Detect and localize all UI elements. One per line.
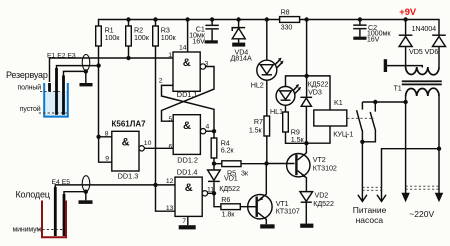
diode VD2 КД522	[300, 191, 334, 224]
svg-text:K1: K1	[334, 98, 343, 107]
ground: C1	[205, 40, 218, 43]
resistor R7 1.5к	[249, 116, 270, 164]
svg-text:+9V: +9V	[399, 7, 417, 17]
svg-text:~220V: ~220V	[409, 209, 434, 219]
label пустой + level line	[20, 105, 67, 113]
ground: VD2	[300, 224, 313, 228]
svg-text:&: &	[183, 120, 191, 132]
svg-text:VD1: VD1	[224, 173, 238, 182]
svg-text:6.2к: 6.2к	[221, 146, 235, 155]
svg-text:КД522: КД522	[219, 184, 240, 193]
svg-text:Колодец: Колодец	[16, 190, 50, 200]
wire: contact top rail to primary left leg	[362, 101, 405, 103]
capacitor C2	[353, 20, 391, 44]
well outline (dark red)	[42, 201, 66, 238]
svg-text:Резервуар: Резервуар	[6, 70, 48, 80]
wire: top supply rail	[99, 17, 440, 35]
electrode E2 + wire to DD1.3 inputs	[57, 63, 101, 114]
svg-text:HL2: HL2	[251, 81, 264, 90]
wire: primary right leg down	[437, 96, 441, 194]
gate DD1.3	[105, 130, 152, 180]
wire: DD1.4 output to junction	[208, 192, 214, 194]
svg-text:КД522: КД522	[313, 199, 334, 208]
svg-text:&: &	[122, 136, 130, 148]
svg-text:&: &	[185, 182, 193, 194]
svg-text:7: 7	[182, 218, 186, 225]
ground: tank cable shield	[80, 83, 93, 86]
svg-text:полный: полный	[18, 84, 42, 92]
wire: latch cross-coupling DD1.1 out3 to DD1.2 in5	[162, 67, 215, 122]
resistor R4 6.2к	[211, 131, 234, 163]
svg-text:100к: 100к	[134, 33, 150, 42]
svg-text:1N4004: 1N4004	[412, 24, 437, 33]
ground: C2	[353, 37, 366, 40]
cable dashes bottom left pair	[362, 187, 381, 190]
svg-text:VD5 VD6: VD5 VD6	[409, 47, 438, 56]
label Питание насоса	[353, 205, 387, 225]
wire: DD1.4 pin 7 to ground	[187, 216, 189, 225]
gate DD1.1	[159, 44, 209, 99]
diode VD5 1N4004	[399, 20, 413, 68]
svg-text:R8: R8	[281, 8, 290, 17]
wire: DD1.2 output to R4 junction	[206, 129, 216, 133]
resistor R3	[153, 20, 177, 47]
relay coil K1 КУЦ-1	[306, 76, 353, 143]
node: coil bottom / VT2 collector junction	[304, 141, 308, 145]
resistor R8 330	[280, 8, 300, 32]
transistor VT2 КТ3102	[287, 143, 337, 191]
gate DD1.2	[169, 115, 210, 165]
resistor R9 1.5к	[283, 112, 307, 144]
mains terminal arrows (filled)	[401, 193, 443, 203]
ground: transformer secondary centre tap	[384, 59, 423, 72]
ground: VT1 collector	[260, 224, 274, 228]
svg-text:&: &	[183, 57, 191, 69]
cable dashes bottom right pair	[406, 186, 439, 189]
svg-text:3к: 3к	[241, 168, 249, 177]
gate DD1.4	[166, 168, 214, 226]
svg-text:1.5к: 1.5к	[249, 126, 263, 135]
resistor R2	[126, 20, 150, 59]
svg-text:4: 4	[206, 124, 210, 131]
electrode E4 + wire to DD1.4 inputs	[55, 185, 155, 236]
svg-text:VD3: VD3	[308, 87, 322, 96]
svg-text:Д814А: Д814А	[231, 54, 252, 63]
svg-text:R6: R6	[221, 195, 230, 204]
wire: branch to pump terminal right	[382, 149, 440, 194]
svg-text:9: 9	[105, 155, 109, 162]
svg-text:16V: 16V	[192, 37, 205, 46]
svg-text:5: 5	[169, 116, 173, 123]
svg-text:100к: 100к	[105, 33, 121, 42]
tank water fill	[45, 92, 67, 117]
diode VD1 КД522	[208, 164, 240, 194]
ground: DD1.4 pin 7	[179, 225, 196, 229]
tank outline (reservoir)	[44, 83, 68, 117]
node: VD1/R6/pin11 junction	[212, 191, 216, 195]
resistor R5 3к	[214, 161, 267, 178]
LED HL1	[270, 76, 307, 116]
svg-text:пустой: пустой	[20, 105, 41, 113]
zener VD4 Д814А	[231, 20, 252, 63]
cable marker ellipse (well)	[82, 176, 90, 192]
pump terminal arrows (open)	[358, 194, 386, 202]
wire: R1 bottom to E2 bus, bus to DD1.3	[96, 46, 111, 162]
wire: R3 bottom bus down to DD1.4 inputs	[155, 46, 157, 185]
svg-text:HL1: HL1	[270, 107, 283, 116]
svg-text:8: 8	[105, 130, 109, 137]
svg-text:1.8к: 1.8к	[222, 210, 236, 219]
electrode E5 + wire to shield ground	[64, 190, 88, 237]
transistor VT1 КТ3107	[248, 164, 300, 225]
svg-text:К561ЛА7: К561ЛА7	[112, 119, 147, 128]
electrode E3 + wire to shield ground	[64, 69, 89, 115]
node: R5/R7/VT1/VT2 junction	[264, 161, 268, 165]
svg-text:DD1.2: DD1.2	[177, 155, 198, 164]
dashed link coil to contacts	[347, 117, 374, 119]
svg-text:14: 14	[179, 44, 187, 51]
wire: primary left leg to ~220V	[403, 96, 407, 194]
svg-text:КТ3107: КТ3107	[276, 207, 300, 216]
svg-text:минимум: минимум	[13, 227, 42, 234]
wire: DD1.3 output to DD1.2 pin 6	[144, 147, 173, 149]
svg-text:DD1.3: DD1.3	[118, 171, 139, 180]
ground: VD4	[232, 43, 245, 47]
label минимум + level line	[13, 227, 65, 234]
svg-text:1: 1	[168, 52, 172, 59]
cable marker ellipse (tank)	[82, 55, 90, 71]
svg-text:DD1.4: DD1.4	[177, 168, 198, 177]
wire: latch cross-coupling DD1.2 out4 to DD1.1 in2	[162, 85, 215, 131]
svg-text:16V: 16V	[367, 35, 380, 44]
svg-text:КУЦ-1: КУЦ-1	[333, 130, 353, 139]
transformer T1	[394, 67, 442, 96]
svg-text:330: 330	[281, 23, 293, 32]
capacitor C1	[189, 20, 219, 46]
label полный + level line	[18, 84, 67, 92]
svg-text:насоса: насоса	[356, 215, 384, 225]
svg-text:T1: T1	[394, 83, 402, 92]
svg-text:2: 2	[159, 77, 163, 84]
wire: pin 14 stub	[187, 20, 189, 53]
svg-text:Питание: Питание	[353, 205, 387, 215]
wire: +9V branch down to VD3/K1	[304, 20, 308, 97]
svg-text:100к: 100к	[161, 33, 177, 42]
ground: well cable shield	[79, 200, 93, 204]
svg-text:КТ3102: КТ3102	[313, 164, 337, 173]
electrode E1 + wire to DD1.1 pin1	[50, 56, 174, 92]
svg-text:1.5к: 1.5к	[291, 135, 305, 144]
resistor R6 1.8к	[214, 193, 248, 218]
diode VD6 1N4004	[409, 24, 446, 67]
wire: DD1.4 inputs junction from E4/R3 bus	[153, 183, 175, 212]
svg-text:12: 12	[166, 178, 174, 185]
svg-text:10: 10	[144, 140, 152, 147]
wire: contact to pump terminal left	[361, 142, 363, 194]
wire: junction to VT2 base	[267, 163, 295, 165]
LED HL2	[251, 20, 284, 117]
diode VD3 КД522 (flyback)	[300, 79, 328, 143]
svg-text:6: 6	[169, 143, 173, 150]
resistor R1	[96, 25, 121, 46]
node: R4/R5/VD1 junction	[212, 161, 216, 165]
relay contact pair	[357, 100, 378, 144]
